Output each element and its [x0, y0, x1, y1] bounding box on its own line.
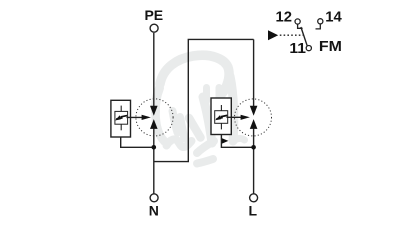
junction node on N line — [152, 145, 157, 150]
wire L top down to gap F2 — [253, 39, 255, 106]
wire below gap F2 to L — [253, 129, 255, 194]
svg-text:12: 12 — [276, 10, 293, 26]
contact terminal 12 — [295, 19, 300, 24]
svg-text:N: N — [149, 203, 159, 219]
wire F2 box to L line — [221, 135, 253, 148]
N terminal — [150, 194, 158, 202]
svg-text:PE: PE — [144, 7, 163, 23]
FM actuator arrow — [268, 30, 278, 40]
wire below gap F1 to N — [153, 129, 155, 194]
actuation arrow F2 to gap — [227, 116, 245, 118]
svg-text:L: L — [249, 203, 258, 219]
arrester F2 element leads — [220, 105, 222, 111]
arrester F1 surge flash symbol — [115, 115, 127, 121]
actuation arrow F1 to gap — [127, 116, 146, 118]
contact terminal 11 — [306, 46, 311, 51]
arrester F1 inner element box — [115, 111, 128, 124]
fixed contact 12 — [298, 24, 303, 28]
watermark — [155, 55, 244, 163]
wire PE down to gap F1 — [153, 33, 155, 106]
arrester F1 outer box — [111, 100, 131, 137]
PE terminal — [150, 24, 158, 32]
svg-text:11: 11 — [289, 41, 306, 57]
fixed contact 14 — [316, 24, 321, 29]
spark gap F2 dotted enclosure — [235, 99, 272, 136]
arrester F2 inner element box — [215, 111, 228, 124]
contact terminal 14 — [318, 19, 323, 24]
spark gap F1 dotted enclosure — [136, 99, 173, 136]
wire loop from L to N line — [154, 39, 254, 161]
spark gap F1 electrodes — [150, 106, 158, 129]
svg-text:FM: FM — [319, 38, 342, 55]
spark gap F2 electrodes — [250, 106, 258, 129]
arrester F1 element leads — [120, 106, 122, 112]
arrester F2 outer box — [211, 98, 231, 135]
junction node on L line — [251, 145, 256, 150]
disconnect indicator flag on F2 wire — [222, 138, 228, 143]
FM actuation dotted link — [280, 34, 303, 36]
L terminal — [250, 194, 258, 202]
wire F1 box to PE/N line — [121, 137, 154, 147]
svg-text:14: 14 — [325, 10, 342, 26]
switch lever 11-12 — [301, 27, 307, 46]
arrester F2 surge flash symbol — [215, 115, 227, 121]
